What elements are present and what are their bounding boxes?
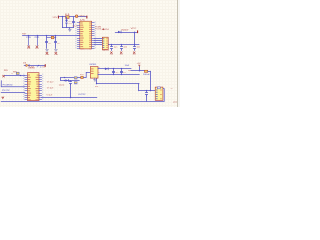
svg-text:F2: F2 xyxy=(80,74,84,76)
wire xyxy=(61,77,81,79)
resistor PR1 xyxy=(35,36,41,46)
svg-text:10uF: 10uF xyxy=(59,84,65,86)
U1 pin numbers xyxy=(75,22,96,49)
node xyxy=(96,83,97,84)
svg-text:LM7805: LM7805 xyxy=(89,64,97,66)
node J1 xyxy=(62,16,63,17)
resistor R9 xyxy=(11,72,19,75)
U1 pin names xyxy=(80,23,91,50)
svg-text:F1: F1 xyxy=(65,14,70,16)
label R12 xyxy=(46,94,53,97)
svg-text:OUT12: OUT12 xyxy=(78,94,85,96)
U2 pins right xyxy=(39,76,42,100)
no-ERC marker xyxy=(133,52,137,57)
svg-text:4.7K: 4.7K xyxy=(47,81,55,83)
svg-text:5V: 5V xyxy=(42,67,46,69)
no-ERC marker xyxy=(110,52,114,57)
wire xyxy=(61,80,79,82)
node xyxy=(134,32,135,33)
capacitor C1 xyxy=(72,17,80,28)
svg-text:4.7K: 4.7K xyxy=(46,95,53,97)
wire pullup rail xyxy=(23,35,80,37)
wire xyxy=(24,65,44,67)
crystal Y1 xyxy=(47,36,56,39)
diode D4 xyxy=(65,79,69,82)
svg-text:GND: GND xyxy=(46,54,50,56)
wire VCC feed xyxy=(115,32,137,34)
svg-text:C10: C10 xyxy=(123,72,127,74)
capacitor C5 xyxy=(120,44,128,50)
wire xyxy=(150,71,152,90)
no-ERC marker xyxy=(120,52,124,57)
wire left branch xyxy=(62,17,64,28)
capacitor C10 xyxy=(120,68,127,75)
capacitor C8 xyxy=(70,80,72,83)
wire gnd rail xyxy=(98,74,139,76)
ground xyxy=(46,48,48,49)
ground xyxy=(55,48,57,49)
capacitor C2 xyxy=(45,36,52,48)
no-ERC marker xyxy=(55,52,59,56)
wire to header xyxy=(94,42,102,44)
node xyxy=(46,35,47,36)
connector J2 xyxy=(102,37,108,49)
wire bottom bus xyxy=(1,101,164,103)
node xyxy=(70,97,71,98)
no-ERC marker xyxy=(27,46,31,50)
svg-text:P3.0RX: P3.0RX xyxy=(95,27,101,29)
node xyxy=(37,35,38,36)
port arrow xyxy=(102,28,105,30)
capacitor C4 xyxy=(110,44,118,50)
node xyxy=(111,44,112,45)
svg-text:GND: GND xyxy=(55,54,59,56)
op-amp U1 body xyxy=(80,21,92,49)
wire xyxy=(131,70,144,72)
wire down to cap rail xyxy=(134,32,136,44)
node xyxy=(55,35,56,36)
diode D3 xyxy=(26,64,30,67)
svg-text:P3.0RXD: P3.0RXD xyxy=(3,84,14,86)
optocoupler U4 xyxy=(74,77,77,80)
wire 12V rail xyxy=(59,16,86,18)
node xyxy=(64,77,65,78)
svg-text:12V: 12V xyxy=(52,17,58,19)
node xyxy=(64,80,65,81)
relay K1 body xyxy=(155,87,163,100)
node xyxy=(150,90,151,91)
fuse F2 xyxy=(80,74,84,78)
wire bottom of loop xyxy=(62,27,73,29)
capacitor C6 xyxy=(133,44,141,50)
svg-text:P3.1TX: P3.1TX xyxy=(95,29,101,31)
svg-text:ISP10: ISP10 xyxy=(102,50,109,52)
power port VCC5 xyxy=(131,28,139,33)
fuse F1 xyxy=(65,14,70,19)
node xyxy=(146,90,147,91)
resistor PR5 xyxy=(26,36,32,46)
capacitor C12 xyxy=(146,91,148,93)
ferrite bead L1 xyxy=(75,15,78,18)
node xyxy=(139,70,140,71)
power port +5V xyxy=(137,63,142,67)
transistor array U2 body xyxy=(27,73,39,101)
U2 pins left xyxy=(25,76,28,100)
diode D5 xyxy=(105,68,109,71)
node xyxy=(20,75,21,76)
capacitor C3 xyxy=(54,36,61,48)
TVS diode D1 xyxy=(65,17,74,28)
svg-text:ULN2803: ULN2803 xyxy=(28,68,35,70)
U1 pins left xyxy=(77,23,80,49)
wire xyxy=(163,89,164,102)
wire to header xyxy=(94,40,102,42)
wire xyxy=(83,72,90,77)
wire xyxy=(42,97,97,99)
label J3 xyxy=(173,101,178,104)
wire xyxy=(146,96,148,101)
sheet border xyxy=(178,0,180,107)
label C7 xyxy=(59,83,66,86)
fuse F3 xyxy=(144,70,147,72)
U2 pin names xyxy=(28,75,39,101)
wire VCC rail xyxy=(94,44,139,46)
power port xyxy=(42,64,46,68)
svg-text:K1: K1 xyxy=(95,86,99,88)
diode D2 xyxy=(118,29,129,33)
wire xyxy=(148,71,151,73)
node xyxy=(121,44,122,45)
U2 pin numbers xyxy=(23,74,44,100)
regulator U3 body xyxy=(90,67,98,79)
svg-text:104: 104 xyxy=(125,65,130,67)
ground xyxy=(94,78,96,79)
node xyxy=(28,35,29,36)
svg-text:VCC: VCC xyxy=(80,15,87,17)
wire xyxy=(5,75,25,77)
no-ERC marker xyxy=(2,75,4,77)
ground xyxy=(69,28,71,29)
U1 pins right xyxy=(92,23,95,49)
svg-text:OUT: OUT xyxy=(173,102,177,104)
svg-text:IN: IN xyxy=(105,29,108,31)
svg-text:GND: GND xyxy=(133,54,137,56)
wire xyxy=(139,67,141,71)
wire xyxy=(139,90,155,92)
ground port xyxy=(1,96,4,100)
resistor R13 xyxy=(74,82,77,85)
wire to header xyxy=(94,38,102,40)
svg-text:1N4007: 1N4007 xyxy=(121,29,129,31)
wire xyxy=(138,84,140,91)
svg-text:1K: 1K xyxy=(11,72,14,74)
wire xyxy=(70,85,72,98)
no-ERC marker xyxy=(46,52,50,56)
wire +5V rail xyxy=(98,68,131,70)
capacitor C9 xyxy=(112,68,119,75)
svg-text:GND: GND xyxy=(120,54,124,56)
svg-text:P3.1TX: P3.1TX xyxy=(2,90,10,92)
label R10 xyxy=(47,80,55,83)
node xyxy=(134,44,135,45)
designator U2 xyxy=(28,66,41,70)
schematic sheet background xyxy=(0,0,180,107)
svg-text:R9: R9 xyxy=(4,70,8,72)
power port +12V xyxy=(52,16,59,19)
grid dots xyxy=(0,0,181,107)
svg-text:100uF: 100uF xyxy=(143,74,151,76)
wire xyxy=(97,83,139,85)
label R11 xyxy=(47,86,55,89)
node xyxy=(38,65,39,66)
svg-text:4.7K: 4.7K xyxy=(47,87,55,89)
no-ERC marker xyxy=(35,46,39,50)
wire xyxy=(1,92,25,94)
power port VCC xyxy=(80,15,88,18)
svg-text:GND: GND xyxy=(110,54,114,56)
wire xyxy=(1,80,25,86)
wire xyxy=(60,78,62,81)
wire xyxy=(96,78,98,84)
